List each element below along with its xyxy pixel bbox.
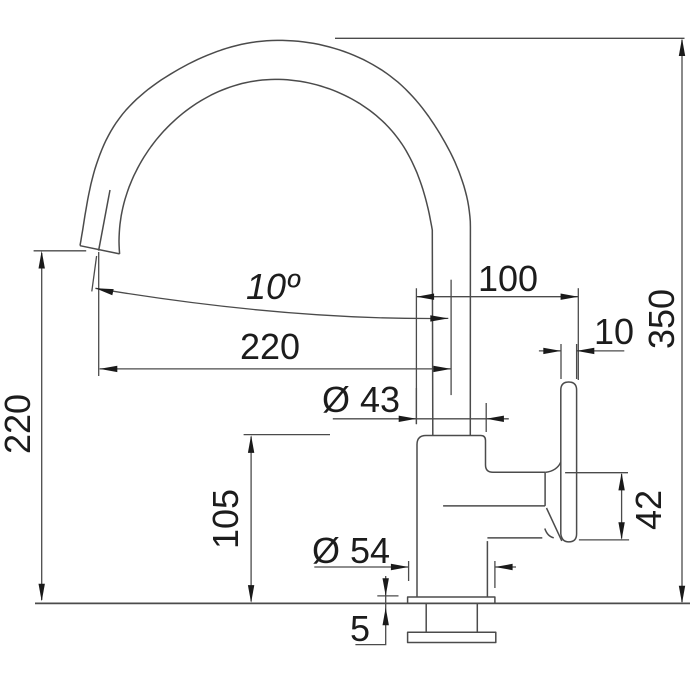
5 flange-top tick bbox=[377, 595, 398, 597]
105 dim line bbox=[250, 437, 252, 602]
dim 5 upper outside arrow bbox=[383, 578, 389, 596]
boss bottom edge bbox=[487, 537, 542, 539]
handle base fillet to boss bbox=[545, 462, 561, 472]
nut bbox=[408, 632, 496, 642]
42 top ext line bbox=[565, 472, 628, 474]
spout tip vertical ext line bbox=[98, 252, 100, 376]
spout tip horizontal ext line bbox=[34, 250, 87, 252]
42 dim line bbox=[621, 474, 623, 539]
dim 42 bottom arrow bbox=[618, 522, 624, 540]
svg-text:Ø 54: Ø 54 bbox=[312, 530, 390, 571]
dim 220 vertical top arrow bbox=[39, 251, 45, 269]
dim 350 top arrow bbox=[679, 38, 685, 56]
dim 105 bottom arrow bbox=[248, 585, 254, 603]
faucet body outline bbox=[426, 436, 545, 473]
svg-text:5: 5 bbox=[350, 608, 370, 649]
svg-text:220: 220 bbox=[240, 326, 300, 367]
dim diameter-54 right outside arrow bbox=[495, 564, 513, 570]
svg-text:42: 42 bbox=[628, 490, 669, 530]
spout outer edge bbox=[80, 40, 470, 435]
dim 105 top arrow bbox=[248, 435, 254, 453]
body mid line bbox=[443, 505, 545, 507]
svg-text:100: 100 bbox=[478, 258, 538, 299]
dim 100 right arrow bbox=[561, 294, 579, 300]
dim diameter-43 right outside arrow bbox=[486, 416, 504, 422]
dim 220 horizontal left arrow bbox=[100, 366, 118, 372]
diameter-43 left ext line bbox=[415, 388, 417, 424]
body right lower edge bbox=[486, 541, 488, 597]
svg-text:350: 350 bbox=[641, 289, 682, 349]
10 right ext line (handle right edge) bbox=[576, 344, 578, 379]
10deg curve bbox=[95, 288, 448, 318]
handle lever capsule bbox=[561, 382, 577, 542]
top extension line (350) bbox=[335, 37, 685, 39]
angle 10deg right arrow bbox=[430, 315, 448, 321]
spout inner edge bbox=[119, 79, 433, 435]
diameter-54 dim line left part bbox=[314, 566, 408, 568]
svg-text:Ø 43: Ø 43 bbox=[322, 379, 400, 420]
diameter-54 left ext line bbox=[408, 561, 410, 581]
countertop baseline bbox=[35, 602, 690, 604]
spout bore line bbox=[99, 190, 110, 251]
10 dim line left tail bbox=[539, 350, 561, 352]
5 dim leader bbox=[355, 576, 385, 645]
diameter-43 dim line bbox=[333, 418, 509, 420]
dim diameter-54 left outside arrow bbox=[391, 564, 409, 570]
svg-text:220: 220 bbox=[0, 394, 38, 454]
shank left vertical bbox=[425, 604, 427, 632]
dim 42 top arrow bbox=[618, 473, 624, 491]
handle cone diagonal bbox=[547, 508, 562, 541]
dim 220 horizontal right arrow bbox=[433, 366, 451, 372]
flange bbox=[408, 597, 495, 604]
220 vertical dim line bbox=[41, 253, 43, 600]
100 right ext line bbox=[577, 288, 579, 380]
handle cone fillet bbox=[545, 529, 554, 538]
dim 5 lower outside arrow bbox=[383, 608, 389, 626]
220 horizontal dim line bbox=[100, 368, 452, 370]
dim 100 left arrow bbox=[416, 294, 434, 300]
angle 10deg left arrow bbox=[95, 288, 113, 295]
dim 220 vertical bottom arrow bbox=[39, 584, 45, 602]
spout outlet face bbox=[80, 246, 120, 254]
diameter-54 right ext line bbox=[494, 561, 496, 588]
100 dim line bbox=[416, 296, 578, 298]
svg-text:10º: 10º bbox=[246, 266, 301, 307]
tube centerline ext bbox=[450, 280, 452, 395]
svg-text:10: 10 bbox=[594, 311, 634, 352]
42 bottom ext line bbox=[579, 539, 629, 541]
10 left ext line (handle left edge) bbox=[560, 344, 562, 379]
svg-text:105: 105 bbox=[205, 489, 246, 549]
105 top ext line bbox=[244, 434, 330, 436]
dim 350 bottom arrow bbox=[679, 586, 685, 604]
100 left ext line bbox=[415, 288, 417, 424]
diameter-54 dim line right part bbox=[495, 566, 516, 568]
diameter-43 right ext line bbox=[485, 403, 487, 432]
10 dim line right tail bbox=[577, 350, 625, 352]
spout axis ext line bbox=[92, 256, 97, 291]
shank right vertical bbox=[476, 604, 478, 632]
dim 10 left outside arrow bbox=[543, 348, 561, 354]
body left edge bbox=[417, 436, 426, 598]
dim diameter-43 left outside arrow bbox=[399, 416, 417, 422]
350 dim line bbox=[681, 40, 683, 602]
dim 10 right outside arrow bbox=[577, 348, 595, 354]
